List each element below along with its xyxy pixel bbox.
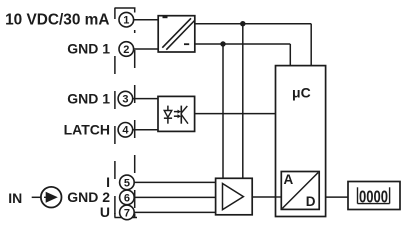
optocoupler light arrow upper <box>174 111 178 113</box>
terminal 2 <box>119 42 134 57</box>
wire terminal6 GND2 to amplifier <box>134 196 215 198</box>
svg-text:1: 1 <box>123 15 129 27</box>
svg-text:μC: μC <box>292 85 311 101</box>
display cell left tick <box>357 187 359 203</box>
wire terminal1 to DC/DC <box>134 19 159 21</box>
display cell underline <box>358 203 390 205</box>
A/D diagonal <box>282 173 318 209</box>
A/D converter box <box>281 172 319 210</box>
terminal strip boundary bottom edge <box>115 217 138 219</box>
svg-text:3: 3 <box>122 94 128 106</box>
junction dot net A <box>240 21 245 26</box>
svg-text:0000: 0000 <box>359 187 388 207</box>
svg-text:I: I <box>106 174 110 190</box>
svg-text:LATCH: LATCH <box>64 122 110 138</box>
svg-text:D: D <box>306 194 316 209</box>
wire net A vertical into uC top <box>310 24 312 66</box>
terminal 3 <box>118 91 133 106</box>
display box <box>348 182 400 210</box>
IN current source arrow <box>44 196 46 198</box>
wire net B: DC/DC out- horizontal <box>195 43 290 45</box>
wire terminal2 to DC/DC <box>134 48 159 50</box>
junction dot net B <box>220 41 225 46</box>
DC/DC diagonal 1 <box>162 18 191 47</box>
terminal 6 <box>120 190 135 205</box>
svg-text:5: 5 <box>124 177 130 189</box>
optocoupler U2 box <box>158 96 195 131</box>
terminal 1 <box>119 12 134 27</box>
svg-text:6: 6 <box>124 192 130 204</box>
terminal strip boundary top edge <box>115 7 136 9</box>
svg-text:GND 2: GND 2 <box>67 189 110 205</box>
A/D stub wire to A/D box <box>276 196 282 198</box>
DC/DC converter box <box>158 16 195 52</box>
wire terminal4 LATCH to optocoupler <box>133 129 158 131</box>
wire uC to display <box>326 196 348 198</box>
DC/DC diagonal 2 <box>166 21 194 50</box>
wire net B vertical into uC top <box>289 44 291 66</box>
svg-text:IN: IN <box>8 190 22 206</box>
IN current source circle <box>41 187 62 208</box>
optocoupler phototransistor bar <box>180 106 182 124</box>
optocoupler light arrow lower <box>174 115 178 117</box>
svg-text:U: U <box>100 204 110 220</box>
optocoupler phototransistor emitter <box>181 115 188 124</box>
wire IN source lead <box>32 196 47 198</box>
DC/DC minus mark bottom-right <box>184 43 189 45</box>
amplifier triangle <box>223 184 244 210</box>
optocoupler phototransistor collector <box>181 106 187 113</box>
wire optocoupler output to uC <box>195 113 276 115</box>
display cell right tick <box>389 187 391 203</box>
svg-text:A: A <box>284 172 294 187</box>
terminal strip boundary right dashed edge <box>134 30 136 218</box>
amplifier box <box>216 178 253 215</box>
DC/DC minus mark top-left <box>163 16 168 18</box>
svg-text:10 VDC/30 mA: 10 VDC/30 mA <box>5 12 109 29</box>
optocoupler LED triangle <box>164 111 172 118</box>
terminal strip boundary left dashed edge <box>114 52 116 218</box>
wire net B branch vertical to amplifier <box>222 44 224 178</box>
wire net A: DC/DC out+ to vertical <box>195 23 311 25</box>
terminal 5 <box>120 175 135 190</box>
optocoupler LED anode lead <box>167 106 169 111</box>
svg-text:4: 4 <box>122 125 129 137</box>
optocoupler LED cathode bar <box>164 117 172 119</box>
wire terminal5 I to amplifier <box>134 181 215 183</box>
svg-text:2: 2 <box>123 44 129 56</box>
svg-text:7: 7 <box>124 207 130 219</box>
terminal 7 <box>120 205 135 220</box>
wire terminal3 to optocoupler <box>133 98 158 100</box>
wire amplifier output to A/D <box>252 196 281 198</box>
microcontroller uC box <box>276 66 326 217</box>
wire terminal7 U to amplifier <box>134 211 215 213</box>
optocoupler LED cathode lead <box>167 118 169 124</box>
terminal 4 <box>118 123 133 138</box>
wire net A branch vertical to amplifier <box>242 24 244 179</box>
svg-text:GND 1: GND 1 <box>67 91 110 107</box>
svg-text:GND 1: GND 1 <box>67 41 110 57</box>
